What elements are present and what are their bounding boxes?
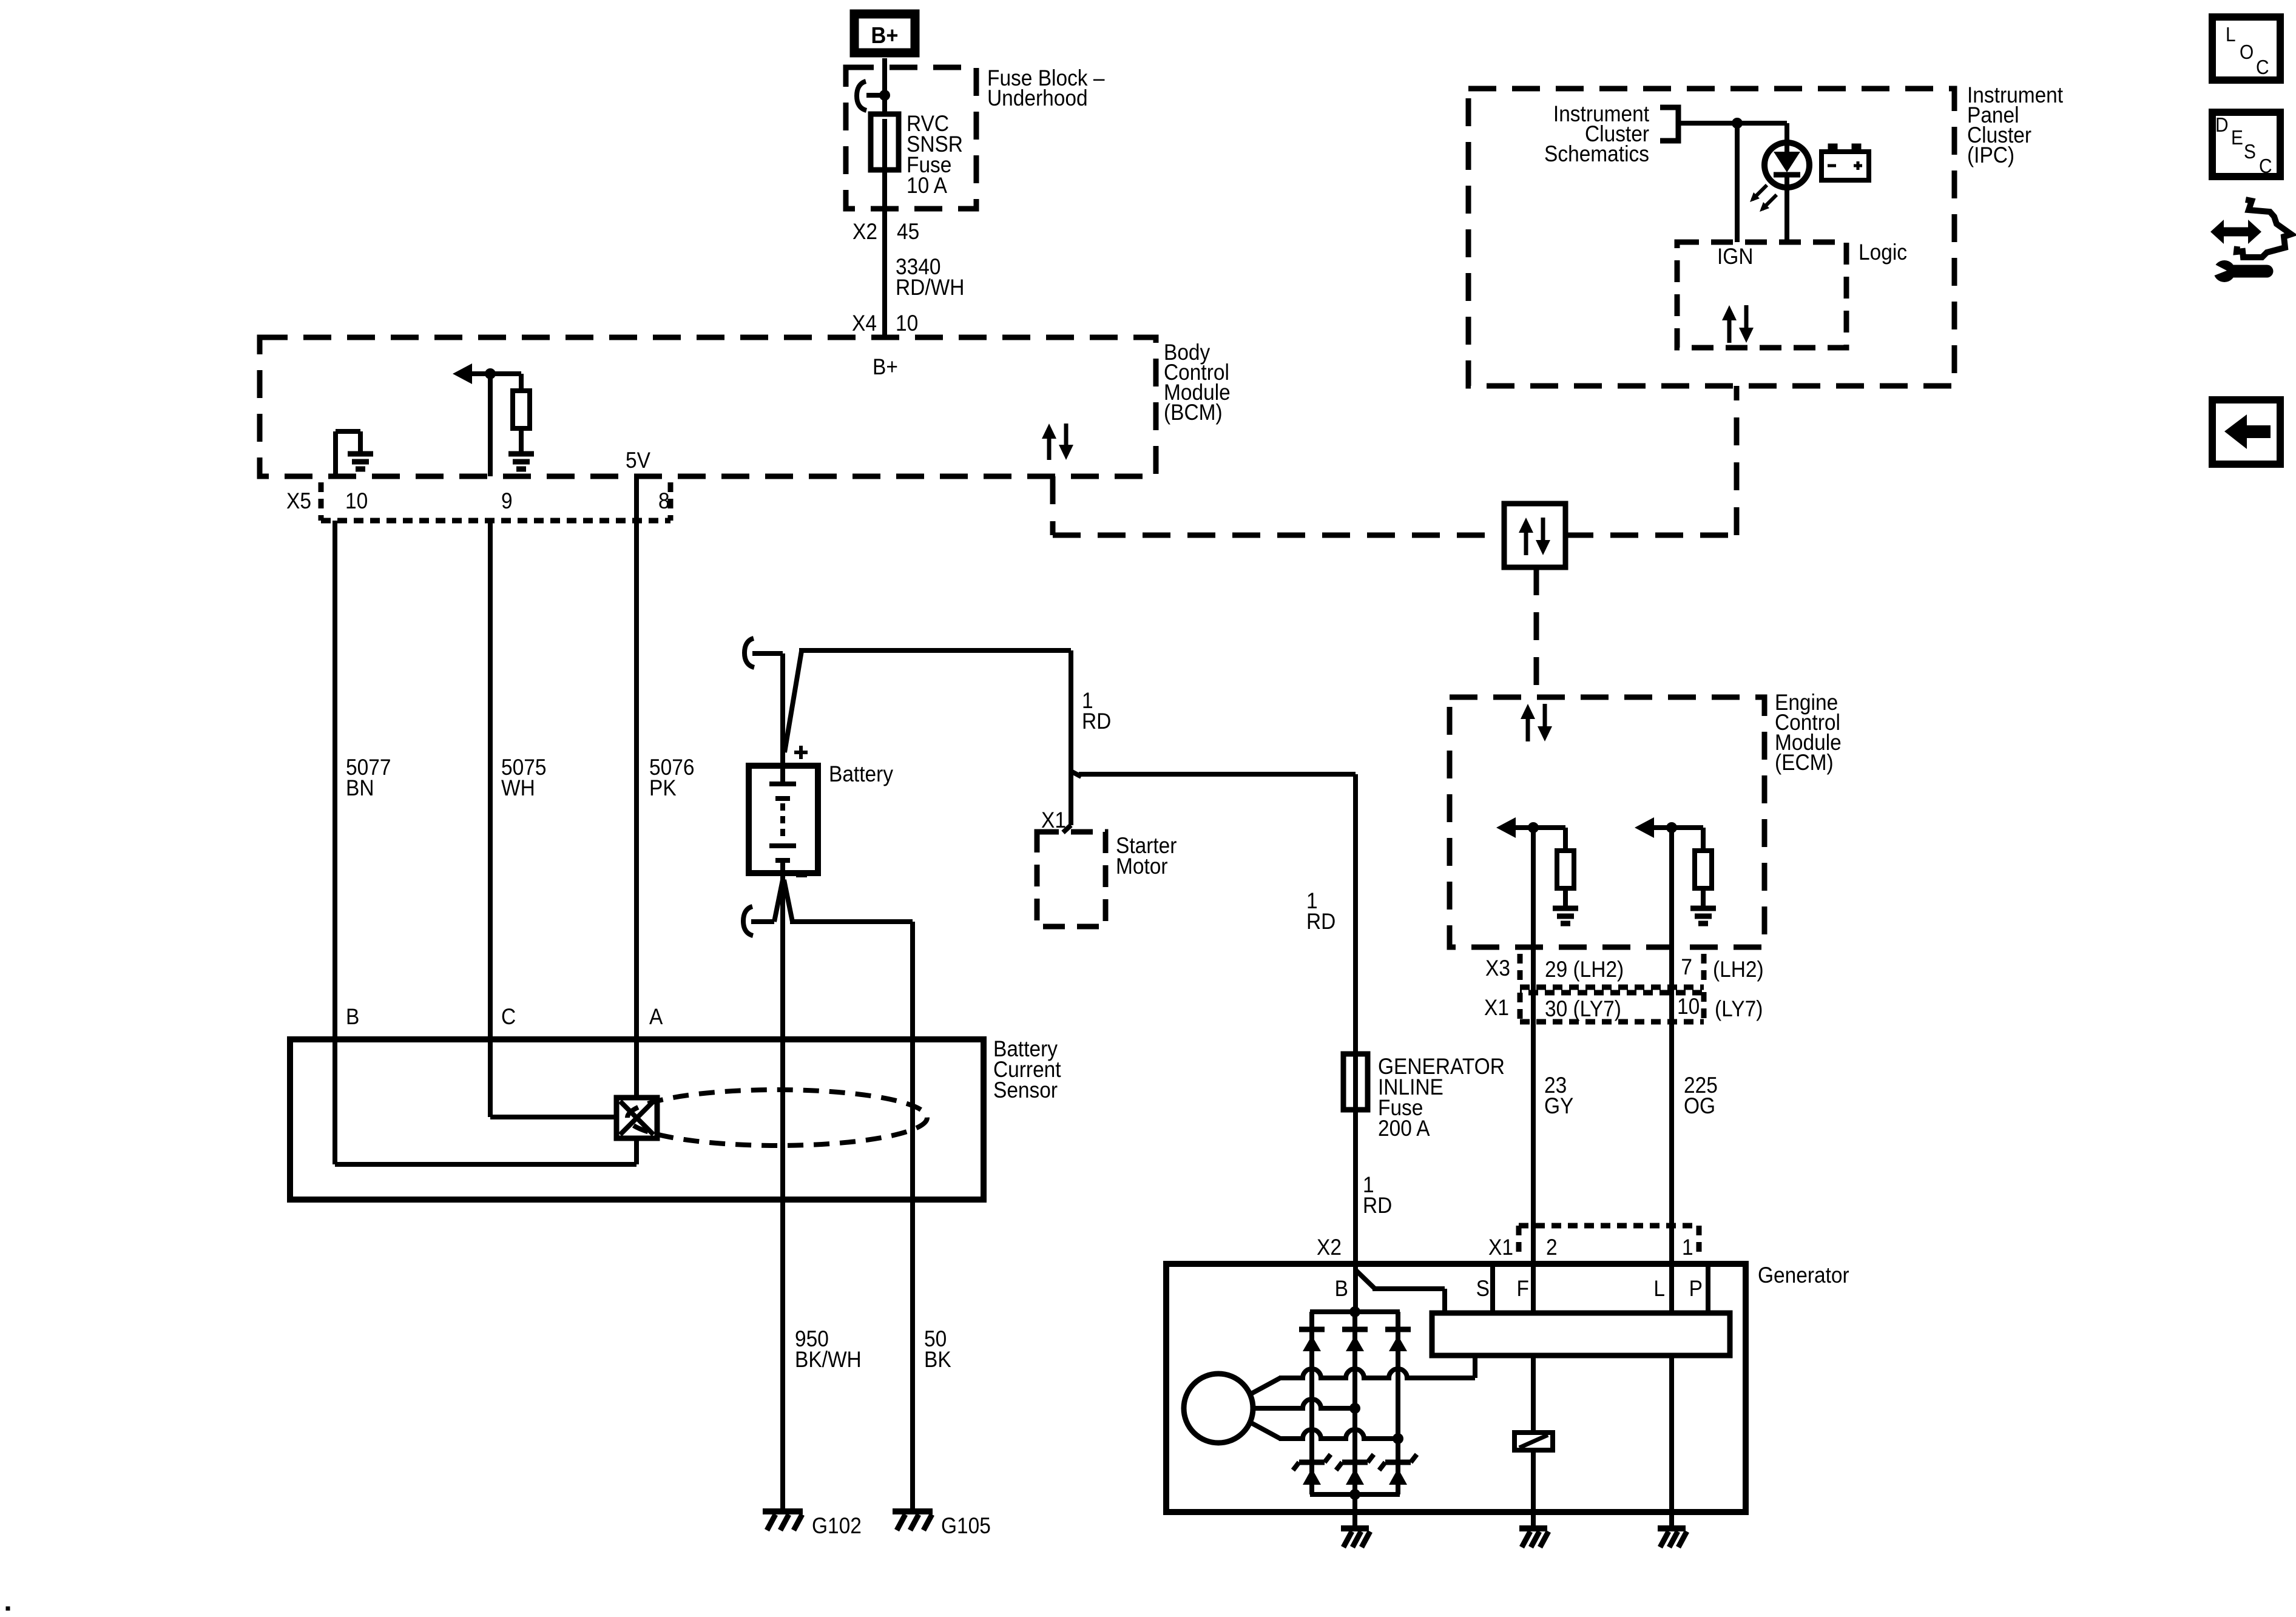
svg-text:X1: X1 (1041, 808, 1066, 832)
svg-text:BN: BN (346, 775, 374, 800)
svg-text:G105: G105 (941, 1513, 991, 1538)
svg-text:D: D (2215, 114, 2229, 137)
svg-text:RD/WH: RD/WH (896, 275, 964, 300)
svg-text:1: 1 (1682, 1235, 1693, 1260)
svg-text:200 A: 200 A (1378, 1116, 1430, 1141)
svg-text:B: B (1335, 1276, 1348, 1301)
svg-text:7: 7 (1681, 954, 1692, 979)
svg-text:B+: B+ (871, 22, 899, 48)
svg-text:C: C (501, 1004, 516, 1029)
svg-text:X2: X2 (853, 219, 877, 244)
svg-text:S: S (2244, 141, 2256, 163)
svg-text:(LY7): (LY7) (1715, 996, 1763, 1021)
svg-text:X2: X2 (1317, 1235, 1342, 1260)
svg-text:X1: X1 (1488, 1235, 1513, 1260)
svg-text:G102: G102 (812, 1513, 862, 1538)
svg-text:Motor: Motor (1116, 854, 1168, 879)
svg-text:RD: RD (1363, 1193, 1392, 1218)
svg-text:10: 10 (896, 311, 918, 336)
svg-text:P: P (1689, 1276, 1703, 1301)
svg-text:9: 9 (501, 488, 513, 513)
svg-text:E: E (2231, 127, 2243, 149)
svg-text:B+: B+ (873, 354, 898, 379)
svg-text:RD: RD (1082, 709, 1111, 734)
svg-text:OG: OG (1684, 1093, 1715, 1118)
svg-text:L: L (2226, 24, 2236, 46)
svg-text:O: O (2240, 41, 2254, 64)
svg-text:(IPC): (IPC) (1967, 143, 2014, 167)
svg-text:X1: X1 (1484, 995, 1509, 1020)
svg-text:Generator: Generator (1758, 1263, 1849, 1288)
svg-text:2: 2 (1546, 1235, 1558, 1260)
svg-text:5V: 5V (626, 448, 650, 473)
svg-text:F: F (1517, 1276, 1529, 1301)
svg-text:L: L (1653, 1276, 1665, 1301)
svg-text:Underhood: Underhood (987, 86, 1088, 110)
svg-text:BK/WH: BK/WH (795, 1347, 862, 1372)
svg-text:(ECM): (ECM) (1775, 750, 1834, 775)
svg-text:30 (LY7): 30 (LY7) (1545, 996, 1621, 1021)
svg-text:S: S (1476, 1276, 1490, 1301)
svg-text:GY: GY (1544, 1093, 1573, 1118)
svg-text:Battery: Battery (829, 761, 893, 786)
svg-text:C: C (2259, 155, 2272, 178)
svg-text:IGN: IGN (1717, 244, 1754, 269)
svg-text:10: 10 (1677, 994, 1700, 1019)
svg-text:A: A (649, 1004, 663, 1029)
svg-text:10: 10 (345, 488, 368, 513)
svg-text:BK: BK (924, 1347, 951, 1372)
svg-text:29 (LH2): 29 (LH2) (1545, 957, 1624, 982)
svg-text:8: 8 (658, 488, 670, 513)
svg-text:Schematics: Schematics (1544, 141, 1649, 166)
svg-text:10 A: 10 A (907, 173, 947, 198)
svg-text:45: 45 (897, 219, 919, 244)
svg-text:X3: X3 (1485, 956, 1510, 981)
svg-text:WH: WH (501, 775, 535, 800)
svg-text:RD: RD (1306, 909, 1335, 934)
svg-text:(BCM): (BCM) (1164, 400, 1223, 425)
svg-text:PK: PK (649, 775, 677, 800)
svg-text:X4: X4 (852, 311, 877, 336)
svg-text:C: C (2256, 56, 2269, 79)
svg-text:B: B (346, 1004, 359, 1029)
svg-text:Sensor: Sensor (993, 1078, 1058, 1102)
svg-text:(LH2): (LH2) (1713, 957, 1764, 982)
svg-text:X5: X5 (286, 488, 311, 513)
svg-text:Logic: Logic (1859, 240, 1907, 265)
